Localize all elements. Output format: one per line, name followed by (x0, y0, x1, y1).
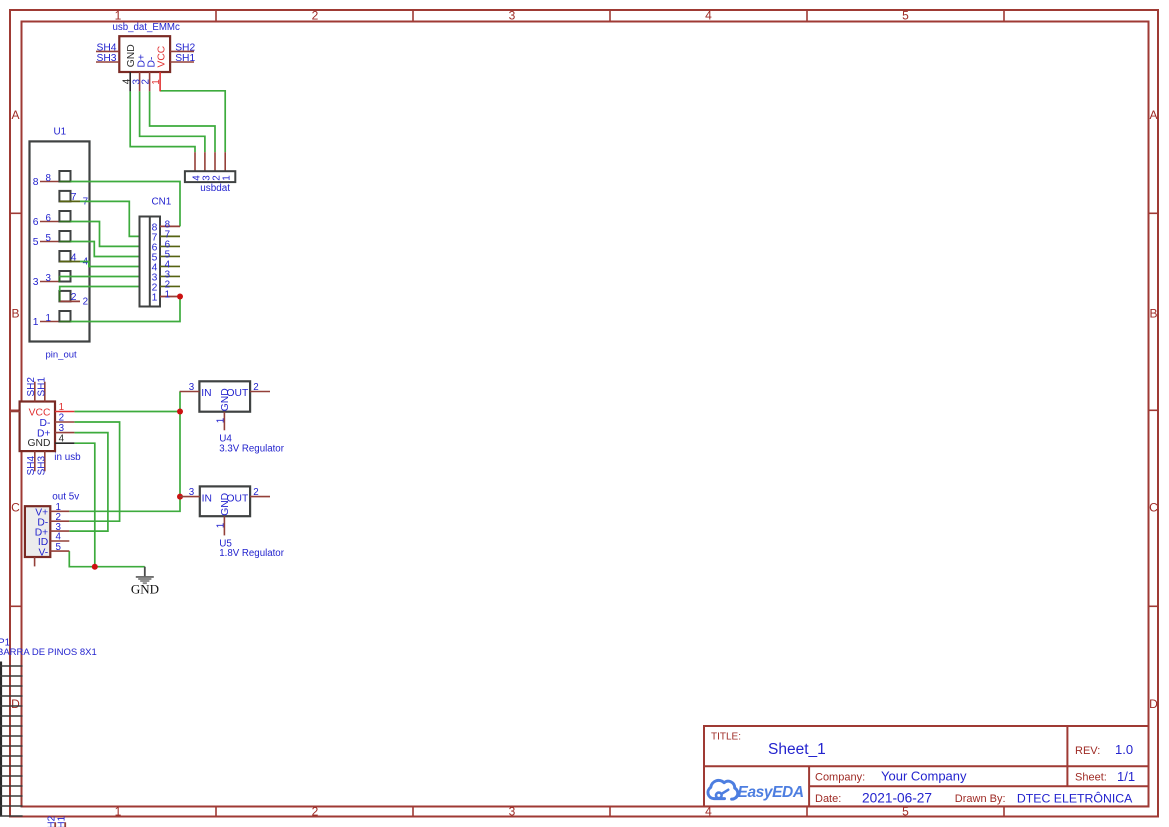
svg-text:5: 5 (56, 542, 62, 553)
title block Drawn By value DTEC ELETRONICA (1017, 790, 1133, 805)
svg-text:SH3: SH3 (36, 456, 47, 476)
svg-text:3: 3 (33, 277, 39, 288)
svg-text:U1: U1 (54, 126, 67, 137)
wire U1 pin7 to CN1 pin7 (80, 201, 140, 236)
title block Date value 2021-06-27 (862, 790, 932, 805)
svg-text:Date:: Date: (815, 793, 841, 805)
svg-text:usbdat: usbdat (200, 183, 230, 194)
svg-text:SH4: SH4 (97, 42, 117, 53)
component U5 body (200, 486, 250, 516)
svg-text:5: 5 (33, 237, 39, 248)
junction dot node U5 IN (177, 494, 183, 500)
pin 2 D- of in_usb (40, 413, 75, 430)
pin 2 OUT of U5 (227, 487, 270, 504)
svg-text:2: 2 (253, 487, 258, 498)
wire D+ net usb_dat_EMMc pin3 to usbdat pin3 (140, 91, 205, 152)
title block Drawn By label (955, 793, 1006, 805)
junction dot node CN1 pin1 (177, 294, 183, 300)
component U5 designator (219, 539, 232, 550)
ruler numbers bottom (115, 805, 910, 819)
title block REV value 1.0 (1115, 742, 1133, 757)
pin 1 GND of U5 (215, 493, 231, 535)
title block TITLE label (711, 732, 741, 743)
pin 2 D- of usb_dat_EMMc (141, 57, 158, 92)
svg-text:Sheet:: Sheet: (1075, 772, 1107, 784)
svg-text:V-: V- (38, 547, 48, 558)
wire U1 pin5 to CN1 pin5 (59, 242, 139, 257)
svg-text:4: 4 (59, 434, 65, 445)
component U4 body (199, 381, 250, 411)
component U4 designator (219, 434, 232, 445)
pin 5 of CN1 (152, 249, 180, 263)
wire in_usb pin2 to out5v pin2 (69, 422, 119, 521)
svg-text:3.3V Regulator: 3.3V Regulator (219, 443, 284, 454)
svg-text:5: 5 (902, 9, 909, 23)
wire vertical U4 IN to U5 IN (179, 392, 181, 497)
svg-text:in usb: in usb (54, 452, 81, 463)
wire U1 pin8 to CN1 pin8 (59, 182, 180, 227)
pin 6 of CN1 (152, 239, 180, 253)
svg-text:1: 1 (115, 805, 122, 819)
svg-text:Drawn By:: Drawn By: (955, 793, 1006, 805)
svg-text:3: 3 (509, 805, 516, 819)
connector J? usb_dat_EMMc label (113, 22, 180, 33)
connector usbdat pin stubs (195, 152, 225, 171)
svg-text:EasyEDA: EasyEDA (738, 784, 804, 801)
svg-text:usb_dat_EMMc: usb_dat_EMMc (113, 22, 180, 33)
pin 6 shield of out5v (34, 557, 36, 566)
wire U1 pin4 to CN1 pin4 (80, 262, 140, 267)
pin 4 GND of usb_dat_EMMc (122, 44, 138, 91)
wire D- net usb_dat_EMMc pin2 to usbdat pin2 (150, 91, 215, 152)
svg-text:1.0: 1.0 (1115, 742, 1133, 757)
svg-text:1/1: 1/1 (1117, 769, 1135, 784)
wire in_usb pin1 VCC to U4 IN node (74, 411, 180, 413)
component P1 value BARRA DE PINOS 8X1 (0, 647, 97, 658)
component P1 designator (0, 638, 11, 649)
pin SH4 of in_usb (26, 451, 37, 475)
component U1 body (30, 141, 90, 341)
svg-text:1: 1 (115, 9, 122, 23)
svg-text:1: 1 (215, 418, 226, 423)
svg-text:3: 3 (509, 9, 516, 23)
svg-text:GND: GND (220, 493, 231, 516)
pin 2 OUT of U4 (227, 382, 270, 399)
wire out5v pin1 to U5 IN (69, 497, 180, 512)
svg-text:3: 3 (59, 423, 65, 434)
svg-text:C: C (1149, 501, 1158, 515)
component U4 value 3.3V Regulator (219, 443, 284, 454)
pin 8 of CN1 (152, 219, 180, 233)
pin 4 of U1 (59, 251, 88, 268)
svg-text:8: 8 (33, 177, 39, 188)
svg-text:5: 5 (46, 233, 52, 244)
pin 6 of U1 (33, 211, 71, 228)
pin SH1 of usb_dat_EMMc (170, 53, 195, 64)
svg-text:3: 3 (189, 487, 195, 498)
pin 3 of CN1 (152, 269, 180, 283)
component P1 body edge (0, 662, 2, 817)
title block Sheet label (1075, 772, 1107, 784)
pin 3 of U1 (33, 271, 71, 288)
svg-text:1: 1 (152, 293, 158, 304)
pin 3 IN of U5 (180, 487, 212, 504)
svg-text:1: 1 (215, 523, 226, 528)
wire GND net usb_dat_EMMc pin4 to usbdat pin4 (130, 91, 195, 152)
pin SH3 of in_usb (36, 451, 47, 475)
pin 1 of CN1 (152, 289, 180, 303)
connector in_usb label (54, 452, 81, 463)
pin 7 of CN1 (152, 229, 180, 243)
svg-text:C: C (11, 501, 20, 515)
pin 1 VCC of usb_dat_EMMc (151, 45, 168, 91)
svg-text:out 5v: out 5v (52, 491, 79, 502)
svg-text:2: 2 (253, 382, 258, 393)
svg-text:VCC: VCC (157, 45, 168, 67)
ruler ticks top (216, 10, 1004, 22)
junction dot node ground (92, 564, 98, 570)
title block Company label (815, 772, 865, 784)
pin 1 of U1 (33, 311, 71, 328)
pin SH2 of in_usb (26, 377, 37, 402)
svg-text:SH3: SH3 (97, 53, 117, 64)
svg-text:IN: IN (201, 388, 211, 399)
pin 3 D+ of usb_dat_EMMc (131, 54, 147, 91)
svg-text:6: 6 (46, 213, 52, 224)
pin 1 V+ of out5v (35, 502, 69, 519)
title block Date label (815, 793, 841, 805)
svg-text:TITLE:: TITLE: (711, 732, 741, 743)
title block Sheet value 1/1 (1117, 769, 1135, 784)
connector in_usb body (20, 402, 55, 452)
pin 2 of CN1 (152, 279, 180, 293)
title block Company value (881, 769, 967, 784)
wire U1 pin3 to CN1 pin3 (59, 277, 139, 283)
connector usbdat pin numbers (191, 175, 232, 181)
pin 3 D+ of in_usb (37, 423, 74, 439)
svg-text:2: 2 (312, 805, 319, 819)
svg-text:CN1: CN1 (152, 197, 172, 208)
svg-text:B: B (1149, 307, 1157, 321)
ruler numbers top (115, 9, 910, 23)
svg-text:SH2: SH2 (175, 42, 195, 53)
connector usbdat label (200, 183, 230, 194)
pin 4 GND of in_usb (28, 434, 75, 449)
connector usbdat body (185, 171, 235, 182)
svg-text:1.8V Regulator: 1.8V Regulator (219, 548, 284, 559)
svg-text:Sheet_1: Sheet_1 (768, 741, 826, 758)
svg-text:GND: GND (28, 438, 51, 449)
svg-text:REV:: REV: (1075, 745, 1100, 757)
svg-text:4: 4 (71, 252, 77, 263)
pin 3 D+ of out5v (35, 522, 70, 539)
svg-text:6: 6 (33, 217, 39, 228)
svg-text:SH1: SH1 (36, 377, 47, 397)
wire out5v pin5 to GND symbol (69, 551, 145, 567)
pin SH2 of usb_dat_EMMc (170, 42, 195, 53)
svg-text:2021-06-27: 2021-06-27 (862, 790, 932, 805)
svg-text:A: A (1149, 108, 1157, 122)
pin SH4 of usb_dat_EMMc (96, 42, 119, 53)
wire VCC net usb_dat_EMMc pin1 to usbdat pin1 (160, 91, 225, 152)
pin 8 of U1 (33, 171, 71, 188)
pin 2 D- of out5v (37, 512, 69, 529)
svg-text:Your Company: Your Company (881, 769, 967, 784)
svg-text:1: 1 (46, 313, 51, 324)
ruler letters right (1149, 108, 1158, 711)
svg-text:GND: GND (220, 388, 231, 411)
svg-text:pin_out: pin_out (46, 350, 78, 361)
cut component pin labels bottom edge (46, 815, 67, 827)
svg-text:DTEC ELETRÔNICA: DTEC ELETRÔNICA (1017, 790, 1133, 805)
pin 4 of CN1 (152, 259, 180, 273)
pin SH1 of in_usb (36, 377, 47, 402)
pin 3 IN of U4 (180, 382, 212, 399)
ruler ticks bottom (216, 807, 1004, 817)
connector usb_dat_EMMc body (119, 36, 170, 72)
pin 1 VCC of in_usb (29, 402, 75, 419)
ruler ticks right (1149, 213, 1159, 606)
wire U1 pin1 to CN1 pin1 (59, 297, 180, 322)
svg-text:2: 2 (83, 297, 88, 308)
wire U1 pin6 to CN1 pin6 (59, 222, 139, 247)
svg-text:VCC: VCC (29, 408, 51, 419)
title block grid (704, 726, 1149, 806)
component P1 pin stubs (0, 666, 23, 816)
svg-text:2: 2 (59, 413, 64, 424)
pin 4 ID of out5v (38, 532, 69, 549)
svg-text:4: 4 (705, 9, 712, 23)
component CN1 body (140, 217, 161, 307)
svg-text:D: D (11, 697, 20, 711)
ground GND symbol (131, 567, 159, 597)
pin 2 of U1 (59, 291, 88, 308)
ruler letters left (11, 108, 20, 711)
svg-text:IN: IN (202, 493, 212, 504)
svg-text:Company:: Company: (815, 772, 865, 784)
svg-text:1: 1 (151, 79, 162, 84)
wire U1 pin2 to CN1 pin2 (60, 287, 140, 302)
svg-text:GND: GND (131, 581, 159, 596)
component U1 value pin_out (46, 350, 78, 361)
svg-text:BARRA DE PINOS 8X1: BARRA DE PINOS 8X1 (0, 647, 97, 658)
svg-text:B: B (11, 307, 19, 321)
svg-text:3: 3 (189, 382, 195, 393)
svg-text:D: D (1149, 697, 1158, 711)
pin 5 V- of out5v (38, 542, 69, 559)
title block sheet name Sheet_1 (768, 741, 826, 758)
pin SH3 of usb_dat_EMMc (96, 53, 119, 64)
title block REV label (1075, 745, 1100, 757)
wire in_usb pin3 to out5v pin3 (69, 433, 108, 531)
svg-text:1: 1 (33, 317, 39, 328)
pin 5 of U1 (33, 231, 71, 248)
svg-text:1: 1 (222, 175, 233, 180)
svg-text:2: 2 (71, 292, 77, 303)
svg-text:8: 8 (46, 173, 52, 184)
svg-text:A: A (11, 108, 19, 122)
junction dot node U4 IN (177, 409, 183, 415)
component CN1 designator (152, 197, 172, 208)
ruler ticks left (10, 213, 22, 606)
svg-text:3: 3 (46, 273, 52, 284)
svg-text:2: 2 (312, 9, 319, 23)
wire in_usb pin4 GND to ground net (74, 443, 94, 567)
svg-text:1: 1 (165, 289, 170, 300)
svg-text:1: 1 (59, 402, 64, 413)
svg-text:SH1: SH1 (175, 53, 195, 64)
svg-text:7: 7 (71, 192, 77, 203)
pin 5 shield of in_usb (10, 411, 20, 413)
pin 1 GND of U4 (215, 388, 231, 430)
pin 7 of U1 (59, 191, 88, 208)
connector out5v label (52, 491, 79, 502)
EasyEDA logo (708, 780, 804, 801)
component U1 designator (54, 126, 67, 137)
component U5 value 1.8V Regulator (219, 548, 284, 559)
connector out5v body (25, 506, 50, 557)
